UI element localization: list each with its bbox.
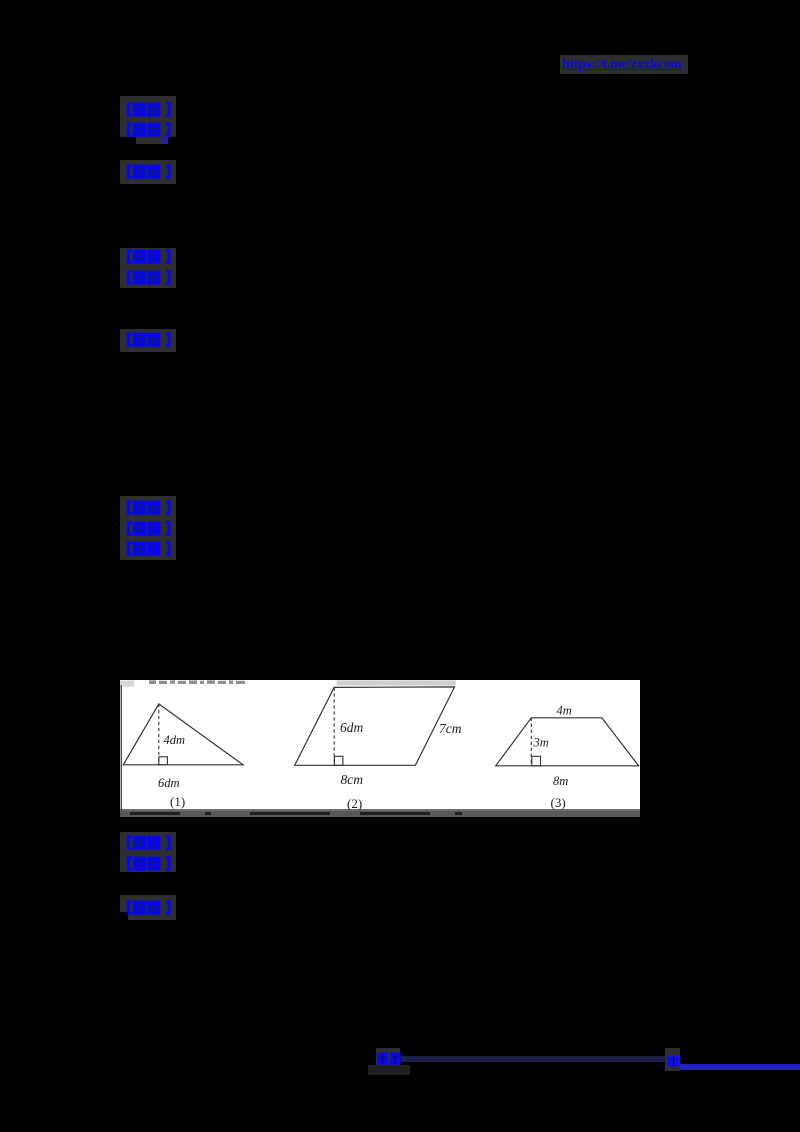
left border line of figure xyxy=(120,685,122,811)
figure image (white box with three shapes) xyxy=(120,680,640,811)
bottom border line of figure xyxy=(120,809,640,811)
parallelogram right-angle mark xyxy=(334,756,343,765)
svg-text:(2): (2) xyxy=(347,796,362,811)
dark text marks in strip xyxy=(130,812,180,816)
highlight extension under cluster4 解答 xyxy=(128,912,176,919)
svg-text:(1): (1) xyxy=(170,794,185,809)
svg-text:8cm: 8cm xyxy=(341,772,364,787)
svg-text:3m: 3m xyxy=(533,735,549,749)
svg-text:(3): (3) xyxy=(551,795,566,810)
label 【考点】 c1 xyxy=(125,102,173,117)
trapezoid right-angle mark xyxy=(532,756,541,766)
label 【分析】 c1 xyxy=(125,122,173,137)
svg-text:4dm: 4dm xyxy=(164,733,186,747)
label 【分析】 c2 xyxy=(125,270,173,285)
gray clipped text bottoms along top xyxy=(149,680,245,684)
highlight box cluster3 (3 lines) xyxy=(120,496,176,560)
trapezoid height dashed line xyxy=(530,717,532,765)
shared glyph artwork for blue CJK-like labels xyxy=(0,0,2,2)
top-right blue hyperlink xyxy=(562,57,688,72)
trapezoid (3) xyxy=(496,717,639,765)
footer right highlight box xyxy=(665,1048,680,1071)
highlight box cluster4 lines 1-2 xyxy=(120,832,176,872)
highlight box behind top-right link xyxy=(560,55,688,74)
footer left highlight box xyxy=(376,1048,401,1065)
svg-text:4m: 4m xyxy=(557,703,572,717)
triangle height dashed line xyxy=(158,703,160,764)
label 【解答】 c3 xyxy=(125,541,173,556)
highlight tab cluster1 line3 xyxy=(136,137,168,144)
highlight box cluster1 解答 line xyxy=(120,160,176,184)
label 【考点】 c3 xyxy=(125,500,173,515)
svg-text:6dm: 6dm xyxy=(158,776,180,790)
highlight box cluster4 解答 xyxy=(120,895,176,913)
label 【解答】 c2 xyxy=(125,332,173,347)
footer bright blue rule (right side) xyxy=(680,1064,800,1071)
footer left gray strip (second footer row) xyxy=(368,1065,410,1076)
svg-text:6dm: 6dm xyxy=(340,720,364,735)
label 【分析】 c3 xyxy=(125,521,173,536)
triangle right-angle mark xyxy=(159,756,168,764)
footer right blue char xyxy=(667,1055,680,1067)
svg-text:8m: 8m xyxy=(553,774,568,788)
svg-text:7cm: 7cm xyxy=(439,721,462,736)
footer left blue page chars xyxy=(377,1052,401,1065)
triangle (1) xyxy=(123,703,243,764)
blue text sliver on cluster1 line3 xyxy=(161,137,169,144)
gray strip below figure (highlighted text row) xyxy=(120,811,640,817)
label 【考点】 c4 xyxy=(125,835,173,850)
label 【考点】 c2 xyxy=(125,249,173,264)
label 【分析】 c4 xyxy=(125,856,173,871)
highlight box cluster2 解答 xyxy=(120,329,176,352)
label 【解答】 c4 xyxy=(125,900,173,915)
light gray band above parallelogram xyxy=(337,680,456,685)
footer navy rule (left of page mark) xyxy=(401,1056,666,1062)
highlight box cluster1 lines 1-2 xyxy=(120,96,176,137)
highlight box cluster2 lines 1-2 xyxy=(120,248,176,288)
light gray corner block xyxy=(120,680,134,686)
label 【解答】 c1 xyxy=(125,164,173,179)
parallelogram (2) xyxy=(295,686,455,764)
parallelogram height dashed line xyxy=(333,687,335,765)
